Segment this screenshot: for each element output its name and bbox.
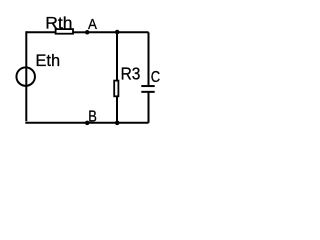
junction dot bottom (R3 branch) (115, 121, 120, 126)
junction dot top (R3 branch) (115, 30, 120, 35)
capacitor C top plate (141, 85, 154, 87)
wire capacitor branch lower (148, 92, 150, 123)
wire R3 branch vertical (116, 32, 118, 123)
resistor Rth (56, 29, 73, 34)
svg-text:C: C (151, 69, 160, 86)
svg-text:B: B (88, 109, 97, 126)
wire top: left corner to resistor Rth (26, 31, 56, 33)
voltage source Eth (circle with line through) (16, 67, 35, 86)
wire left vertical (25, 31, 27, 121)
wire top: resistor Rth to node A (73, 31, 87, 33)
node A dot (85, 30, 90, 35)
wire bottom (25, 122, 148, 124)
svg-text:Rth: Rth (45, 13, 72, 32)
capacitor C bottom plate (141, 91, 154, 93)
node B dot (85, 121, 90, 126)
wire top: node A to R3 junction (87, 31, 117, 33)
svg-text:R3: R3 (121, 64, 141, 84)
wire top: R3 junction to top-right corner (117, 31, 149, 33)
svg-text:Eth: Eth (36, 52, 61, 70)
wire capacitor branch upper (148, 32, 150, 86)
svg-text:A: A (88, 17, 97, 33)
resistor R3 (114, 81, 118, 97)
